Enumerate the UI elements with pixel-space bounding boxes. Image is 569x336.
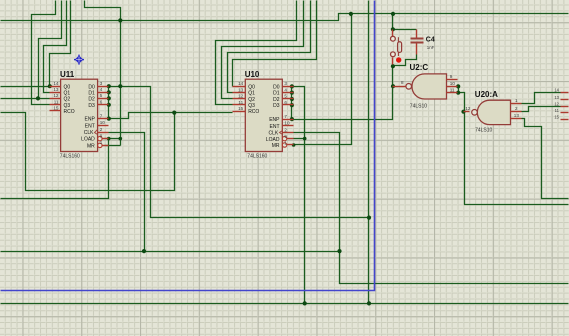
node U11 ENP xyxy=(107,117,111,121)
wire node x=174 riser down to y=191 west to x=25.6 up to y=112.5 west to edge xyxy=(1,113,175,191)
wire U11 D-bus x=108.8 xyxy=(108,87,110,119)
wire U20:A pin13 jog down east down to y=198.3 east off sheet xyxy=(522,119,569,199)
svg-text:LOAD: LOAD xyxy=(81,137,95,143)
svg-text:2: 2 xyxy=(100,127,103,132)
U10 LOAD inversion bubble pin 9 xyxy=(282,136,286,140)
svg-text:1nF: 1nF xyxy=(427,45,435,50)
node top rail / x=120 branch xyxy=(118,18,122,22)
U11 LOAD inversion bubble pin 9 xyxy=(98,136,102,140)
node U2:C pin 10 xyxy=(456,84,460,88)
node U11 Q0 xyxy=(48,84,52,88)
svg-text:6: 6 xyxy=(284,100,287,105)
svg-text:74LS160: 74LS160 xyxy=(60,154,80,160)
wire blue net vertical x=375 and bottom run y=290.2 xyxy=(1,1,375,291)
svg-text:1: 1 xyxy=(100,140,103,145)
svg-text:74LS10: 74LS10 xyxy=(475,128,492,134)
svg-text:MR: MR xyxy=(87,144,95,150)
svg-text:D3: D3 xyxy=(273,103,280,109)
svg-text:MR: MR xyxy=(272,143,280,149)
svg-text:Q1: Q1 xyxy=(248,91,255,97)
wire U20:A pin2 jog up east to edge connector xyxy=(522,107,561,112)
node x=369 on bottom rail 2 xyxy=(367,301,371,305)
svg-text:4: 4 xyxy=(100,87,103,92)
node U10 MR xyxy=(292,143,296,147)
U10 pins 14,13,12,11,15 (left) and 3,4,5,6,7,10,2,9,1 (right) xyxy=(233,87,294,145)
svg-text:Q0: Q0 xyxy=(248,85,255,91)
svg-text:13: 13 xyxy=(53,87,59,92)
svg-text:D2: D2 xyxy=(88,97,95,103)
U10 body xyxy=(245,79,282,151)
svg-text:5: 5 xyxy=(100,93,103,98)
svg-text:5: 5 xyxy=(284,94,287,99)
wire U11 Q2 row from west edge xyxy=(1,98,50,100)
node U11 LOAD tie xyxy=(119,137,123,141)
wire U11 D0 row east then down to y=217.7 and east to node x=369 xyxy=(109,87,369,218)
U20:A body xyxy=(477,100,510,124)
wire U10 LOAD row tie xyxy=(294,138,305,140)
wire U11 LOAD net below chip to west edge y=198.2 xyxy=(1,139,109,199)
svg-text:14: 14 xyxy=(53,81,59,86)
wire U11 LOAD row tie xyxy=(105,138,121,140)
wire U10 D0 east then down x=304.7 to bottom rail xyxy=(292,87,305,304)
wire U11 ENP to U10 RCO row y=112.6 xyxy=(109,113,233,119)
svg-text:11: 11 xyxy=(450,87,455,92)
node U11 Q2 xyxy=(36,96,40,100)
svg-text:12: 12 xyxy=(465,106,471,111)
svg-text:2: 2 xyxy=(284,127,287,132)
svg-text:74LS10: 74LS10 xyxy=(410,104,427,110)
wire U2:C pins 10-11 tie xyxy=(458,87,460,93)
wire from top edge x=85 down-over to x=120.3 then down to U11 LOAD/MR tie xyxy=(85,1,121,146)
svg-text:12: 12 xyxy=(53,93,59,98)
svg-text:Q0: Q0 xyxy=(64,84,71,90)
svg-text:12: 12 xyxy=(238,94,244,99)
svg-text:9: 9 xyxy=(450,74,453,79)
svg-text:11: 11 xyxy=(555,108,560,113)
svg-text:D0: D0 xyxy=(273,85,280,91)
svg-text:15: 15 xyxy=(238,106,244,111)
wire U11 Q1 staircase from top xyxy=(44,1,67,93)
sheet origin marker xyxy=(74,55,84,65)
wire button top node east to C4 top lead xyxy=(393,29,417,31)
svg-text:Q2: Q2 xyxy=(248,97,255,103)
svg-text:ENT: ENT xyxy=(270,124,280,130)
svg-text:D1: D1 xyxy=(273,91,280,97)
U11 pins 14,13,12,11,15 (left) and 3,4,5,6,7,10,2,9,1 (right) xyxy=(50,87,109,146)
node U11 CLK on bottom rail xyxy=(142,249,146,253)
svg-text:Q3: Q3 xyxy=(64,103,71,109)
svg-text:D2: D2 xyxy=(273,97,280,103)
svg-text:CLK: CLK xyxy=(84,130,94,136)
wire U11 MR row tie xyxy=(105,145,121,147)
wire U10 Q1 staircase from top xyxy=(228,1,311,93)
svg-text:10: 10 xyxy=(284,121,290,126)
node U10 D3 xyxy=(290,103,294,107)
svg-text:RCO: RCO xyxy=(248,109,259,115)
wire U10 Q3 staircase from top xyxy=(216,1,297,105)
edge connector pins at right edge xyxy=(554,88,568,120)
counter U10 74LS160 xyxy=(233,70,294,160)
wire U20:A pin1 jog up east to edge connector xyxy=(522,93,561,104)
wire C4 bottom lead jog west to button bottom node xyxy=(393,55,417,66)
wire bottom rail y=251.1 stepping down to y=283.5 east xyxy=(1,252,569,284)
wire bottom rail y=303.4 xyxy=(1,303,569,305)
wire button top node down from top rail xyxy=(392,14,394,30)
push button xyxy=(391,30,402,65)
svg-text:11: 11 xyxy=(238,100,243,105)
svg-text:C4: C4 xyxy=(426,37,435,44)
svg-text:U11: U11 xyxy=(60,70,75,79)
node U11 D0 xyxy=(107,84,111,88)
node U11 D3 xyxy=(107,103,111,107)
node button bottom / C4 bottom xyxy=(391,64,395,68)
wire U10 ENP east to x=392.7 up to U2:C output node xyxy=(292,87,393,120)
svg-text:RCO: RCO xyxy=(64,109,75,115)
svg-text:CLK: CLK xyxy=(268,131,278,137)
svg-text:U20:A: U20:A xyxy=(475,90,498,99)
svg-text:Q3: Q3 xyxy=(248,103,255,109)
svg-text:7: 7 xyxy=(284,114,287,119)
svg-text:1: 1 xyxy=(284,141,287,146)
svg-text:Q2: Q2 xyxy=(64,97,71,103)
node feedback rail joint xyxy=(367,216,371,220)
node U11 D0 east branch xyxy=(118,84,122,88)
svg-text:U2:C: U2:C xyxy=(410,63,429,72)
node top rail / button branch xyxy=(391,12,395,16)
wire U11 Q2 staircase from top xyxy=(39,1,62,99)
svg-text:9: 9 xyxy=(284,134,287,139)
wire U11 CLK east then down to bottom rail xyxy=(109,133,145,252)
U2:C body xyxy=(412,74,447,99)
U10 CLK clock mark xyxy=(280,131,283,135)
svg-text:10: 10 xyxy=(100,120,106,125)
svg-text:D0: D0 xyxy=(88,84,95,90)
svg-text:14: 14 xyxy=(554,88,559,93)
svg-text:D1: D1 xyxy=(88,90,95,96)
wire U11 Q0 row from west edge xyxy=(1,86,50,88)
svg-text:ENP: ENP xyxy=(85,117,96,123)
svg-text:3: 3 xyxy=(100,81,103,86)
svg-text:4: 4 xyxy=(284,87,287,92)
svg-text:1: 1 xyxy=(515,98,518,103)
wire U2:C pin11 east down to U20:A output node xyxy=(459,93,465,112)
U10 MR inversion bubble pin 1 xyxy=(282,143,286,147)
wire top rail y=20.4 jogging up to y=13.9 at x=339 xyxy=(1,14,569,21)
wire U10 Q2 staircase from top xyxy=(222,1,304,99)
svg-text:Q1: Q1 xyxy=(64,90,71,96)
wire U10 Q0 staircase from top xyxy=(233,1,317,87)
svg-text:6: 6 xyxy=(100,100,103,105)
svg-text:10: 10 xyxy=(450,81,456,86)
node U10 D2 xyxy=(290,97,294,101)
node U10 D0 xyxy=(290,84,294,88)
svg-text:13: 13 xyxy=(554,95,559,100)
svg-text:ENT: ENT xyxy=(85,123,95,129)
svg-text:7: 7 xyxy=(100,113,103,118)
wire button bottom node down to U2:C output dot xyxy=(392,67,394,87)
wire U11 Q3 staircase from top xyxy=(32,1,56,105)
svg-text:8: 8 xyxy=(401,80,404,85)
node U10 RCO row branch xyxy=(172,111,176,115)
node U20:A output pin 12 xyxy=(461,110,465,114)
node U2:C pin 11 xyxy=(456,91,460,95)
svg-text:9: 9 xyxy=(100,133,103,138)
svg-text:74LS160: 74LS160 xyxy=(247,154,267,160)
nand gate U20:A 74LS10 (mirrored) xyxy=(464,90,522,134)
node U10 net on bottom rail 2 xyxy=(303,301,307,305)
svg-text:D3: D3 xyxy=(88,103,95,109)
wire long vertical x=369 xyxy=(368,1,370,304)
node U10 ENP xyxy=(290,117,294,121)
U11 body xyxy=(61,79,98,151)
button state red dot xyxy=(396,57,401,62)
svg-text:11: 11 xyxy=(54,100,59,105)
svg-text:ENP: ENP xyxy=(269,117,280,123)
svg-text:13: 13 xyxy=(238,87,244,92)
wire U10 CLK east then down xyxy=(294,133,340,252)
node top rail / U10 MR branch xyxy=(349,12,353,16)
svg-text:15: 15 xyxy=(554,115,559,120)
U2:C output inversion bubble xyxy=(406,84,412,90)
node U10 D1 xyxy=(290,91,294,95)
wire U11 Q0 staircase from top xyxy=(50,1,71,87)
svg-text:U10: U10 xyxy=(245,70,260,79)
U20:A output inversion bubble xyxy=(472,110,478,116)
node button top / C4 top xyxy=(391,27,395,31)
U11 MR inversion bubble pin 1 xyxy=(98,143,102,147)
node U2:C output pin 8 xyxy=(391,84,395,88)
svg-text:13: 13 xyxy=(514,113,520,118)
nand gate U2:C 74LS10 (mirrored) xyxy=(393,63,458,109)
svg-text:15: 15 xyxy=(53,106,59,111)
svg-text:12: 12 xyxy=(554,101,559,106)
svg-text:2: 2 xyxy=(515,106,518,111)
node U10 CLK on bottom rail xyxy=(337,249,341,253)
capacitor C4 xyxy=(411,30,435,55)
wire U10 D-bus x=291.9 xyxy=(291,87,293,120)
node U11 D2 xyxy=(107,96,111,100)
svg-text:14: 14 xyxy=(238,81,244,86)
node U11 LOAD drop xyxy=(107,137,111,141)
wire U10 MR row east then up to top rail x=351.4 xyxy=(294,14,352,145)
counter U11 74LS160 xyxy=(50,70,109,160)
wire U20:A output node down to y=204.8 east off sheet xyxy=(465,112,569,205)
node U10 LOAD xyxy=(303,137,307,141)
node U11 D1 xyxy=(107,90,111,94)
svg-text:3: 3 xyxy=(284,81,287,86)
